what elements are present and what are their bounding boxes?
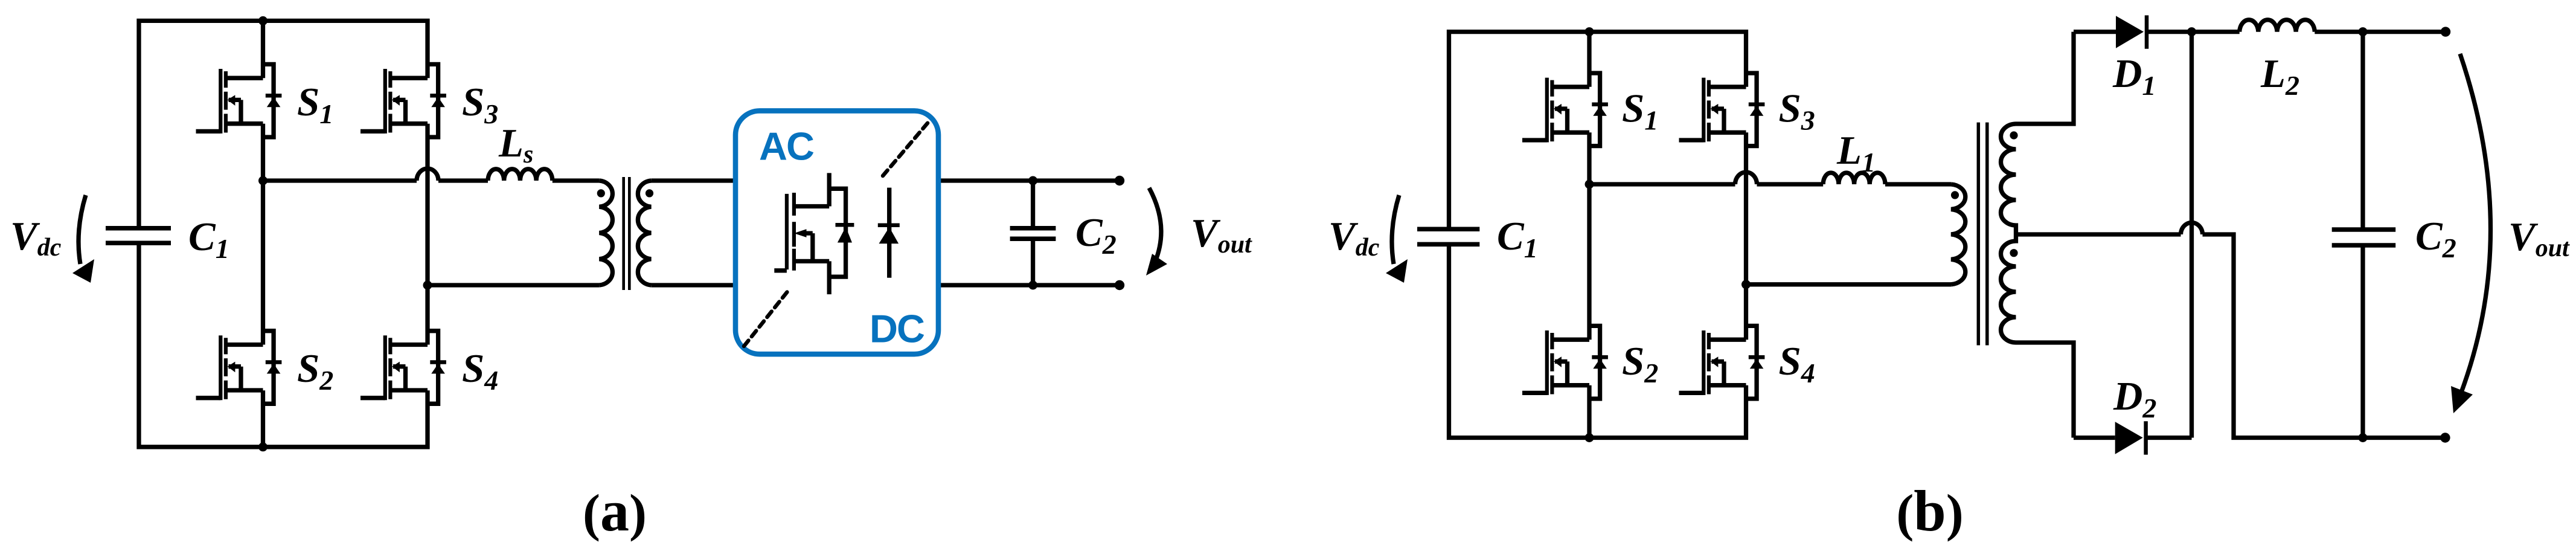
AC-DC converter block box xyxy=(735,111,938,354)
junction dot mid leg2 (a) xyxy=(423,281,432,290)
transformer T1 core (a) xyxy=(624,177,630,290)
block internal diode xyxy=(878,188,900,278)
inductor Ls xyxy=(488,169,553,181)
capacitor C2 branch wires (b) xyxy=(2360,32,2365,438)
arrow Vdc (a) xyxy=(72,195,94,283)
wire center tap with crossover hop (b) xyxy=(2016,223,2446,438)
wire left rail lower and bottom rail (b) xyxy=(1449,244,1746,437)
wire drain S1 (b) xyxy=(1587,32,1591,87)
svg-text:(b): (b) xyxy=(1896,478,1963,543)
junction dot C2 bottom (a) xyxy=(1028,281,1037,290)
junction dot bottom leg1 (a) xyxy=(258,442,268,451)
wire secondary to block top (a) xyxy=(651,178,735,182)
wire bridge output bottom (a) xyxy=(428,283,599,287)
svg-text:(a): (a) xyxy=(583,478,647,543)
junction dot mid leg1 (b) xyxy=(1585,180,1594,189)
junction dot top leg1 (b) xyxy=(1585,27,1594,36)
wire bottom rail left D2 (b) xyxy=(2074,436,2192,440)
wire secondary to block bottom (a) xyxy=(651,283,735,287)
junction dot C2 bottom (b) xyxy=(2359,433,2368,442)
svg-text:AC: AC xyxy=(759,124,814,169)
polarity dot secondary lower (b) xyxy=(2010,249,2017,257)
wire bridge output top with crossover hop (a) xyxy=(263,169,600,181)
wire source S2 (a) xyxy=(261,390,265,447)
junction dot mid leg1 (a) xyxy=(258,176,268,185)
transformer T2 core xyxy=(1978,123,1987,346)
wire secondary bottom lead (b) xyxy=(2016,343,2074,438)
polarity dot primary (a) xyxy=(597,189,605,197)
wire bridge output top with crossover hop (b) xyxy=(1589,172,1951,184)
transistor S3 (a) xyxy=(360,64,446,137)
wire top rail right D1 to output (b) xyxy=(2074,30,2446,34)
arrow Vout (a) xyxy=(1146,188,1167,275)
junction dot C2 top (a) xyxy=(1028,176,1037,185)
arrow Vdc (b) xyxy=(1386,195,1408,283)
inductor L1 xyxy=(1823,173,1885,184)
arrow Vout (b) xyxy=(2451,54,2491,413)
wire leg2 middle vertical (b) xyxy=(1744,132,1748,340)
inductor L2 xyxy=(2240,20,2315,32)
wire top rail and left rail upper (b) xyxy=(1449,32,1746,230)
junction dot D1 cathode (b) xyxy=(2187,27,2196,36)
transistor S4 (b) xyxy=(1679,326,1765,399)
capacitor C1 plates (a) xyxy=(106,228,171,243)
transistor S4 (a) xyxy=(360,331,446,404)
polarity dot primary (b) xyxy=(1951,191,1959,199)
capacitor C2 plates (a) xyxy=(1010,228,1056,239)
transformer T2 secondary upper winding xyxy=(2001,124,2016,234)
polarity dot secondary upper (b) xyxy=(2010,131,2017,139)
wire block to output top (a) xyxy=(938,178,1120,182)
transistor S1 (b) xyxy=(1522,73,1608,146)
junction dot top leg1 (a) xyxy=(258,16,268,25)
transformer T2 secondary lower winding xyxy=(2001,234,2016,343)
transistor S3 (b) xyxy=(1679,73,1765,146)
wire block to output bottom (a) xyxy=(938,283,1120,287)
transformer T1 primary winding (a) xyxy=(599,181,612,285)
wire bridge output bottom (b) xyxy=(1746,282,1952,286)
transformer T2 primary winding xyxy=(1951,184,1966,285)
dashed diagonal lower left xyxy=(744,289,789,346)
dashed diagonal upper right xyxy=(883,120,931,176)
junction dot mid leg2 (b) xyxy=(1741,280,1751,289)
capacitor C2 plates (b) xyxy=(2332,230,2396,245)
junction dot C2 top (b) xyxy=(2359,27,2368,36)
transistor S2 (a) xyxy=(196,331,282,404)
transistor S2 (b) xyxy=(1522,326,1608,399)
transistor S1 (a) xyxy=(196,64,282,137)
terminal dot output plus (a) xyxy=(1115,176,1124,185)
wire leg1 middle vertical (b) xyxy=(1587,132,1591,340)
block internal MOSFET xyxy=(774,173,854,294)
diode D2 xyxy=(2115,421,2146,454)
terminal dot output minus (a) xyxy=(1115,280,1124,290)
transformer T1 secondary winding (a) xyxy=(638,181,651,285)
terminal dot output plus (b) xyxy=(2441,27,2450,36)
wire leg2 middle vertical (a) xyxy=(425,124,429,345)
junction dot bottom leg1 (b) xyxy=(1585,433,1594,442)
svg-text:DC: DC xyxy=(870,307,924,351)
terminal dot output minus (b) xyxy=(2440,433,2450,442)
wire drain S1 (a) xyxy=(261,21,265,78)
wire left rail lower and bottom rail (a) xyxy=(139,243,428,447)
wire top rail and left rail upper (a) xyxy=(139,21,428,228)
wire D1 to D2 cathode link (b) xyxy=(2190,32,2194,438)
capacitor C2 branch wires (a) xyxy=(1031,181,1035,285)
capacitor C1 plates (b) xyxy=(1417,229,1479,244)
wire source S2 (b) xyxy=(1587,385,1591,438)
diode D1 xyxy=(2116,15,2147,48)
wire leg1 middle vertical (a) xyxy=(261,124,265,345)
polarity dot secondary (a) xyxy=(646,189,653,197)
wire secondary top lead (b) xyxy=(2016,32,2074,124)
